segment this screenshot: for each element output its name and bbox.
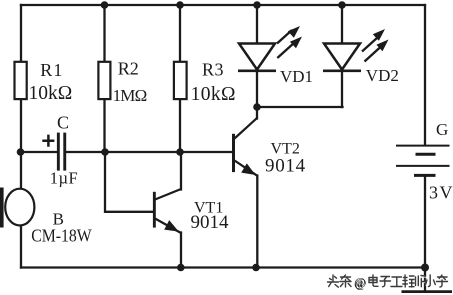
microphone B (electret mic CM-18W): [0, 188, 92, 246]
wire mid-rail right segment (C right plate to VT2 base): [66, 151, 232, 153]
wire battery - lead down through bottom rail: [424, 177, 426, 291]
node bottom rail / battery: [421, 264, 429, 272]
transistor VT2 (NPN 9014): [232, 118, 306, 176]
wire VD2 cathode lead to bus: [341, 71, 343, 107]
LED VD2: [323, 29, 399, 85]
wire VT2 collector riser to LED bus node: [256, 107, 258, 119]
resistor R1: [15, 60, 73, 104]
wire VT2 emitter to bottom rail: [256, 176, 258, 268]
resistor R3: [174, 60, 236, 106]
node bottom rail / VT1 emitter: [177, 264, 185, 272]
svg-text:10kΩ: 10kΩ: [191, 84, 236, 105]
svg-text:G: G: [436, 120, 448, 139]
battery G 3V: [396, 120, 453, 202]
node mid-rail / R3 / VT1 collector: [176, 148, 184, 156]
svg-text:@: @: [354, 276, 366, 290]
wire VD2 anode lead from top rail: [341, 5, 343, 44]
svg-text:R3: R3: [202, 60, 224, 80]
svg-text:R2: R2: [118, 59, 139, 79]
wire VD1 cathode lead to bus node: [256, 71, 258, 107]
wire R2 bottom lead to mid-rail: [103, 100, 105, 152]
transistor VT1 (NPN 9014): [153, 189, 229, 233]
LED VD1: [238, 26, 313, 86]
svg-text:9014: 9014: [191, 212, 230, 233]
svg-text:1µF: 1µF: [50, 169, 78, 188]
wire microphone bottom to bottom rail: [20, 226, 22, 268]
svg-text:9014: 9014: [265, 155, 306, 176]
wire R3 bottom lead to mid-rail: [179, 100, 181, 152]
wire R1 bottom to mid-rail node: [20, 100, 22, 152]
wire VT1 collector to mid-rail node: [180, 152, 182, 190]
svg-text:1MΩ: 1MΩ: [113, 86, 147, 105]
wire VT1 emitter to bottom rail: [180, 233, 182, 268]
node mid-rail / R2: [101, 148, 109, 156]
wire R3 top lead: [179, 5, 181, 61]
node top rail / VD2: [338, 1, 346, 9]
wire top rail: [21, 4, 425, 6]
wire LED bus (VD1 cathode node to VD2 cathode): [257, 106, 343, 108]
node mid-rail / mic: [17, 148, 25, 156]
svg-text:C: C: [57, 113, 69, 133]
svg-text:10kΩ: 10kΩ: [29, 83, 73, 104]
bottom-right border remnant line: [402, 290, 453, 293]
wire mid-rail node to microphone top: [20, 152, 22, 189]
node top rail / VD1: [253, 1, 261, 9]
wire R2 node down and right to VT1 base: [105, 152, 153, 212]
resistor R2: [98, 59, 146, 105]
node top rail / R2: [101, 1, 109, 9]
svg-text:3V: 3V: [429, 182, 453, 202]
svg-text:R1: R1: [40, 60, 63, 80]
node bottom rail / VT2 emitter: [252, 264, 260, 272]
wire mid-rail left segment (node to C left plate): [21, 151, 57, 153]
node top rail / R3: [176, 1, 184, 9]
wire left rail (top wire to R1 top): [20, 5, 22, 61]
wire VD1 anode lead from top rail: [256, 5, 258, 44]
svg-text:VD1: VD1: [280, 67, 313, 86]
svg-text:CM-18W: CM-18W: [31, 225, 92, 245]
node LED bus / VT2 collector: [253, 103, 261, 111]
wire right rail (top wire to battery +): [424, 5, 426, 144]
svg-text:VD2: VD2: [366, 66, 399, 85]
wire R2 top lead: [103, 5, 105, 61]
wire bottom rail: [21, 266, 425, 268]
capacitor C1 (electrolytic, series in mid-rail): [42, 113, 78, 188]
